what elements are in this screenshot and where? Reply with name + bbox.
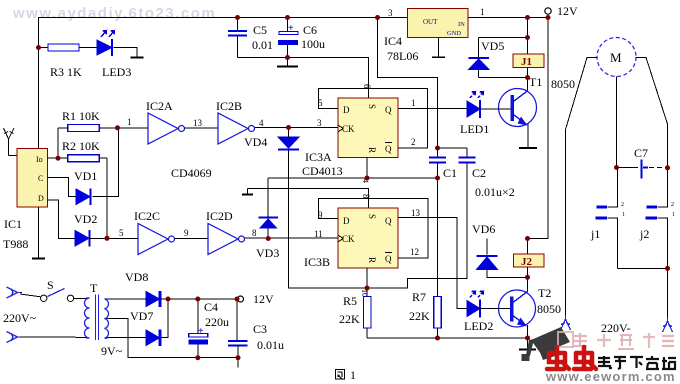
svg-text:4: 4 bbox=[259, 118, 264, 128]
svg-text:C4: C4 bbox=[204, 300, 218, 314]
wire IC4 gnd stem bbox=[438, 38, 440, 58]
capacitor C7 bbox=[617, 167, 639, 169]
diode VD7 bbox=[146, 330, 160, 347]
wire IC3A Q to LED1 bbox=[398, 108, 467, 110]
svg-text:R: R bbox=[367, 257, 377, 263]
wire C1 C2 top rail bbox=[438, 147, 467, 149]
switch S bbox=[20, 293, 40, 298]
caption fig1 bbox=[336, 370, 345, 380]
IC U3B CD4013 box bbox=[338, 208, 398, 268]
wire C2 bottom stem bbox=[457, 163, 467, 279]
svg-text:LED3: LED3 bbox=[102, 65, 131, 79]
wire IC3B S rail y188 from gnd stub bbox=[248, 189, 369, 209]
LED LED3 bbox=[97, 31, 115, 57]
inverter IC2D bbox=[208, 224, 245, 255]
wire IC1 gnd stem bbox=[38, 207, 40, 259]
diode VD6 bbox=[477, 256, 498, 270]
svg-text:2: 2 bbox=[411, 137, 416, 147]
capacitor C6 electrolytic bbox=[278, 23, 298, 45]
relay coil J1 bbox=[513, 54, 544, 68]
svg-text:S: S bbox=[367, 214, 377, 219]
svg-text:VD4: VD4 bbox=[244, 135, 267, 149]
svg-text:CD4069: CD4069 bbox=[171, 166, 212, 180]
svg-text:www.eeworm.com: www.eeworm.com bbox=[545, 369, 676, 384]
ground symbol under C6 bbox=[287, 58, 289, 67]
svg-text:www.aydadiy.6to23.com: www.aydadiy.6to23.com bbox=[12, 5, 216, 22]
svg-text:VD5: VD5 bbox=[481, 39, 504, 53]
svg-text:J2: J2 bbox=[521, 256, 533, 268]
svg-text:8: 8 bbox=[252, 228, 257, 238]
transistor T1 bbox=[499, 89, 537, 127]
ground stub after LED3 bbox=[131, 57, 144, 59]
svg-text:VD6: VD6 bbox=[472, 222, 495, 236]
watermark ghost chinese bbox=[558, 332, 674, 349]
svg-text:C5: C5 bbox=[253, 23, 267, 37]
svg-text:D: D bbox=[343, 216, 350, 226]
wire R1 leads bbox=[58, 127, 68, 129]
svg-text:Q: Q bbox=[385, 105, 392, 115]
wire IC3A R stem bbox=[366, 158, 368, 179]
wire T1 emitter to ground bbox=[527, 124, 529, 148]
svg-text:VD8: VD8 bbox=[125, 270, 148, 284]
svg-text:IN: IN bbox=[458, 21, 465, 28]
resistor R3 bbox=[48, 44, 79, 51]
wire VD1 cathode up to R1 node bbox=[93, 128, 119, 197]
IC U4 78L06 box bbox=[408, 9, 469, 38]
svg-text:LED2: LED2 bbox=[464, 319, 493, 333]
ground T2 emitter bbox=[527, 338, 529, 350]
svg-text:1: 1 bbox=[672, 212, 675, 218]
svg-text:M: M bbox=[610, 50, 622, 65]
wire IC3A R rail y178 bbox=[268, 177, 438, 179]
svg-text:8050: 8050 bbox=[551, 77, 575, 91]
wire IC2A out to IC2B in bbox=[185, 127, 219, 129]
wire VD5 branch bbox=[479, 37, 528, 39]
svg-text:T2: T2 bbox=[538, 286, 551, 300]
svg-text:D: D bbox=[343, 105, 350, 115]
inverter IC2A bbox=[148, 113, 185, 144]
wire VD3 anode stem bbox=[267, 228, 269, 239]
svg-text:J1: J1 bbox=[521, 56, 532, 68]
svg-text:C3: C3 bbox=[253, 322, 267, 336]
wire 12V rail to terminal bbox=[168, 298, 237, 300]
diode VD1 bbox=[76, 189, 91, 206]
wire lower mains to transformer bbox=[20, 336, 86, 338]
svg-text:220V~: 220V~ bbox=[3, 311, 37, 325]
wire VD5 bottom to T1 collector node bbox=[479, 77, 528, 79]
svg-text:22K: 22K bbox=[409, 309, 430, 323]
wire IC3B R stem bbox=[366, 268, 368, 288]
svg-text:R7: R7 bbox=[412, 290, 426, 304]
ground stub C3 bbox=[237, 358, 239, 368]
diode VD3 bbox=[259, 218, 279, 229]
wire J1 bottom to T1 collector bbox=[527, 68, 529, 92]
IC U3A CD4013 box bbox=[338, 98, 398, 158]
motor M bbox=[597, 38, 636, 77]
watermark graduation cap bbox=[522, 327, 571, 361]
svg-text:3: 3 bbox=[388, 8, 393, 18]
svg-text:Io: Io bbox=[36, 155, 43, 164]
svg-text:3: 3 bbox=[317, 118, 322, 128]
capacitor C1 bbox=[437, 148, 439, 157]
svg-text:C: C bbox=[38, 174, 43, 183]
svg-text:C6: C6 bbox=[303, 23, 317, 37]
svg-text:VD2: VD2 bbox=[74, 212, 97, 226]
ground stub IC3B S bbox=[247, 189, 249, 195]
svg-text:1: 1 bbox=[350, 368, 356, 382]
svg-text:1: 1 bbox=[480, 7, 485, 17]
svg-text:2: 2 bbox=[621, 202, 624, 208]
resistor R2 bbox=[68, 155, 99, 162]
wire VD4 column to IC3B R rail y288 bbox=[289, 151, 458, 289]
svg-text:9V~: 9V~ bbox=[101, 344, 123, 358]
svg-text:12: 12 bbox=[410, 247, 419, 257]
svg-text:IC2A: IC2A bbox=[146, 99, 173, 113]
svg-text:CK: CK bbox=[342, 124, 355, 134]
svg-text:12V: 12V bbox=[557, 4, 578, 18]
wire VD6 bottom to J2 bottom node bbox=[487, 270, 528, 278]
svg-text:S: S bbox=[47, 278, 54, 292]
svg-text:IC2D: IC2D bbox=[206, 209, 233, 223]
svg-text:1: 1 bbox=[622, 212, 625, 218]
wire VD7 out up to 12V node bbox=[160, 299, 168, 338]
capacitor C3 bbox=[236, 299, 238, 340]
wire down to right mains prong bbox=[667, 268, 669, 317]
transistor T2 bbox=[499, 290, 536, 327]
svg-text:T988: T988 bbox=[3, 237, 28, 251]
svg-text:LED1: LED1 bbox=[460, 122, 489, 136]
transformer T bbox=[85, 295, 109, 341]
watermark red bug logo bbox=[547, 347, 596, 369]
svg-text:1: 1 bbox=[127, 117, 132, 127]
svg-text:IC4: IC4 bbox=[384, 34, 402, 48]
capacitor C2 bbox=[466, 148, 468, 157]
wire IC1 C pin to VD1 anode bbox=[48, 177, 77, 196]
wire IC2B out to IC3A CK bbox=[254, 127, 338, 129]
wire bottom rail R5 R7 T2 emitter bbox=[367, 337, 528, 339]
IC U1 T988 box bbox=[17, 149, 48, 208]
svg-text:220u: 220u bbox=[205, 315, 229, 329]
svg-text:13: 13 bbox=[411, 208, 421, 218]
diode VD5 bbox=[469, 58, 490, 70]
wire VD4 anode stem bbox=[288, 128, 290, 138]
wire left rail down to IC1 top bbox=[38, 18, 40, 150]
wire IC2C out to IC2D in bbox=[175, 238, 209, 240]
wire VD2 cathode to IC2C input bbox=[90, 237, 139, 239]
wire IC3B D to Qbar loop bbox=[319, 199, 429, 259]
svg-text:0.01: 0.01 bbox=[252, 38, 273, 52]
svg-text:12V: 12V bbox=[253, 292, 274, 306]
svg-text:C2: C2 bbox=[472, 166, 486, 180]
svg-text:IC3B: IC3B bbox=[304, 255, 330, 269]
wire Q13 down to LED2 bbox=[457, 279, 467, 309]
svg-text:VD7: VD7 bbox=[130, 309, 153, 323]
watermark text dianzi xiazaizhan bbox=[598, 356, 676, 369]
inverter IC2B bbox=[218, 113, 255, 144]
inverter IC2C bbox=[138, 224, 175, 255]
LED LED1 bbox=[467, 92, 484, 119]
svg-text:IC3A: IC3A bbox=[305, 150, 332, 164]
svg-text:GND: GND bbox=[447, 30, 461, 37]
terminal 12V supply bbox=[238, 296, 244, 302]
relay contact j1 bbox=[608, 168, 618, 207]
svg-text:VD3: VD3 bbox=[256, 246, 279, 260]
wire ground rail under C5 C6 to IC3A S bbox=[238, 58, 369, 99]
wire LED2 to T2 base bbox=[480, 308, 510, 310]
wire transformer top tap to VD8 bbox=[108, 298, 147, 300]
svg-text:22K: 22K bbox=[339, 312, 360, 326]
wire j1 j2 bottom join bbox=[618, 267, 668, 269]
mains prong left 220V- bbox=[561, 315, 571, 330]
wire M bottom stem bbox=[616, 77, 618, 168]
wire M left lead bbox=[566, 58, 598, 316]
svg-text:j1: j1 bbox=[590, 227, 600, 241]
wire LED1 to T1 base bbox=[480, 108, 511, 110]
svg-text:Q: Q bbox=[385, 144, 392, 154]
svg-text:IC2C: IC2C bbox=[134, 209, 160, 223]
svg-text:CK: CK bbox=[342, 234, 355, 244]
terminal 12V top right bbox=[545, 8, 551, 14]
svg-text:R5: R5 bbox=[343, 294, 357, 308]
svg-text:IC2B: IC2B bbox=[216, 99, 242, 113]
svg-text:Q: Q bbox=[385, 216, 392, 226]
svg-text:D: D bbox=[38, 194, 44, 203]
wire LED3 cathode to ground stub bbox=[114, 48, 138, 58]
wire J1 feed column bbox=[527, 18, 529, 55]
svg-text:VD1: VD1 bbox=[74, 169, 97, 183]
wire transformer bottom tap to VD7 bbox=[108, 337, 147, 339]
wire switch to transformer bbox=[74, 297, 86, 299]
wire IC3A D to Qbar loop bbox=[319, 89, 428, 149]
capacitor C5 bbox=[228, 31, 247, 36]
mains input prongs 220V~ bbox=[7, 287, 21, 343]
wire 12V top rail bbox=[38, 17, 548, 19]
wire M right lead bbox=[636, 58, 668, 169]
svg-text:T1: T1 bbox=[529, 75, 542, 89]
svg-text:R2 10K: R2 10K bbox=[62, 139, 100, 153]
svg-text:2: 2 bbox=[671, 202, 674, 208]
svg-text:CD4013: CD4013 bbox=[302, 164, 343, 178]
svg-text:5: 5 bbox=[119, 228, 124, 238]
svg-text:100u: 100u bbox=[301, 37, 325, 51]
wire IC1 D pin to VD2 anode bbox=[48, 200, 76, 238]
svg-text:0.01u×2: 0.01u×2 bbox=[475, 185, 515, 199]
svg-text:0.01u: 0.01u bbox=[257, 338, 284, 352]
svg-text:Q: Q bbox=[385, 254, 392, 264]
svg-text:78L06: 78L06 bbox=[387, 49, 418, 63]
svg-text:T: T bbox=[90, 281, 98, 295]
svg-text:9: 9 bbox=[184, 228, 189, 238]
resistor R5 bbox=[366, 288, 368, 297]
svg-text:220V-: 220V- bbox=[601, 321, 631, 335]
capacitor C4 electrolytic bbox=[197, 299, 199, 333]
svg-text:OUT: OUT bbox=[423, 18, 438, 26]
svg-text:R: R bbox=[367, 147, 377, 153]
wire center tap to ground rail bbox=[108, 319, 239, 358]
diode VD4 bbox=[278, 137, 299, 150]
svg-text:j2: j2 bbox=[639, 227, 649, 241]
relay contact j2 bbox=[658, 168, 668, 207]
resistor R7 bbox=[434, 297, 442, 329]
wire VD6 top branch bbox=[486, 239, 488, 255]
wire IC4 out to 12V corner, down right side to J2 bbox=[528, 18, 549, 239]
svg-text:1: 1 bbox=[411, 98, 416, 108]
antenna bbox=[4, 128, 18, 156]
svg-text:R1 10K: R1 10K bbox=[62, 109, 100, 123]
LED LED2 bbox=[467, 291, 484, 318]
wire R1 right to IC2A input bbox=[118, 127, 149, 129]
wire R2 leads bbox=[58, 157, 68, 159]
wire top rail drop x377 to y77 over to x437 bbox=[378, 18, 438, 149]
wire IC2D out to IC3B CK bbox=[244, 237, 338, 239]
wire R2 right down to VD2 node bbox=[106, 158, 108, 238]
svg-text:C1: C1 bbox=[443, 166, 457, 180]
diode VD8 bbox=[146, 291, 160, 307]
wire VD8 out to 12V node bbox=[160, 298, 168, 300]
wire C5 stems bbox=[237, 18, 239, 31]
wire VD3 cathode up to y178 rail bbox=[267, 178, 269, 218]
diode VD2 bbox=[75, 230, 90, 247]
svg-text:8050: 8050 bbox=[537, 302, 561, 316]
svg-text:R3 1K: R3 1K bbox=[50, 65, 82, 79]
wire C6 stems bbox=[287, 18, 289, 32]
svg-text:13: 13 bbox=[193, 118, 203, 128]
svg-text:C7: C7 bbox=[634, 146, 648, 160]
resistor R1 bbox=[68, 125, 99, 132]
wire Io pin to R1 R2 junction bbox=[48, 157, 59, 159]
mains prong right 220V- bbox=[663, 317, 673, 332]
svg-text:IC1: IC1 bbox=[4, 217, 22, 231]
svg-text:S: S bbox=[367, 104, 377, 109]
relay coil J2 bbox=[527, 239, 529, 255]
wire R3 leads bbox=[38, 47, 48, 49]
